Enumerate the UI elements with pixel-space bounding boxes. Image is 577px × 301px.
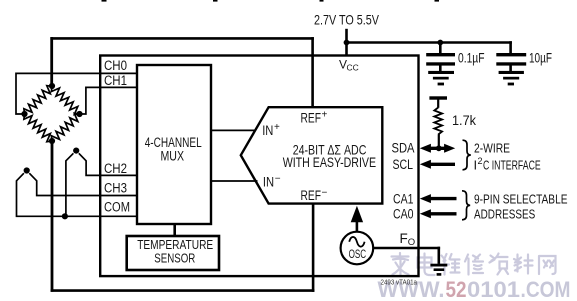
svg-text:2493 vTA01a: 2493 vTA01a	[381, 279, 418, 286]
oscillator OSC	[341, 232, 374, 265]
svg-text:REF: REF	[301, 109, 322, 125]
node bridge right	[76, 111, 82, 117]
wire REF+ vertical drop	[311, 37, 314, 106]
svg-text:COM: COM	[104, 199, 130, 214]
wire MUX to IN+	[212, 129, 255, 131]
svg-text:10µF: 10µF	[529, 51, 552, 66]
wire REF- bottom rail	[51, 289, 315, 292]
svg-text:+: +	[274, 122, 280, 133]
ground for C2	[499, 71, 524, 86]
wire bridge bottom	[51, 141, 54, 292]
brace 9-pin	[462, 191, 470, 220]
bridge resistor RB (top-right arm)	[51, 86, 79, 114]
wire FO to ground	[373, 247, 440, 250]
svg-text:2-WIRE: 2-WIRE	[474, 141, 510, 156]
resistor R1 1.7k pull-up	[429, 96, 447, 148]
svg-text:ADDRESSES: ADDRESSES	[474, 206, 536, 221]
ADC U1 24-BIT delta-sigma	[241, 107, 382, 203]
svg-text:C INTERFACE: C INTERFACE	[483, 157, 541, 172]
clipped title remnant marks	[102, 0, 440, 2]
svg-text:IN: IN	[262, 123, 273, 138]
brace 2-wire	[463, 140, 471, 170]
node sensor probe 2 tip	[73, 148, 79, 154]
chip LTC2493 outline	[100, 56, 418, 277]
bridge resistor RC (bottom-left arm)	[24, 114, 52, 142]
node bridge bottom	[49, 138, 55, 144]
node COM junction	[62, 213, 68, 219]
svg-text:2: 2	[478, 156, 483, 166]
svg-text:+: +	[322, 110, 328, 121]
svg-text:CH0: CH0	[104, 58, 127, 73]
svg-text:0101: 0101	[467, 277, 520, 301]
ground for C1	[428, 71, 454, 86]
wire REF- vertical rise	[312, 203, 315, 292]
svg-text:−: −	[275, 174, 281, 185]
wire decoupling rail	[345, 41, 512, 44]
wire bridge top	[50, 37, 53, 86]
svg-text:CC: CC	[347, 63, 359, 73]
svg-text:WITH EASY-DRIVE: WITH EASY-DRIVE	[283, 154, 376, 170]
wire SDA bidirectional arrow	[420, 144, 455, 153]
wire CA1 arrow	[420, 194, 457, 203]
svg-text:SDA: SDA	[392, 141, 415, 156]
svg-text:CA1: CA1	[393, 192, 414, 207]
wire MUX to temperature sensor	[173, 224, 176, 236]
svg-text:2.7V TO 5.5V: 2.7V TO 5.5V	[314, 12, 379, 28]
svg-text:OSC: OSC	[349, 247, 367, 261]
node SDA pull-up junction	[436, 145, 442, 151]
ground for FO	[430, 264, 447, 276]
svg-text:.COM: .COM	[521, 277, 571, 301]
watermark WWW.520101.COM	[378, 277, 571, 301]
svg-text:CH3: CH3	[104, 181, 127, 196]
svg-text:MUX: MUX	[161, 148, 185, 163]
wire CH1 to bridge right node	[80, 87, 137, 114]
wire CH3 to sensor probe 1	[29, 173, 137, 195]
svg-text:SENSOR: SENSOR	[154, 250, 195, 265]
svg-text:52: 52	[446, 277, 467, 301]
watermark chinese characters 家电维修资料网	[392, 253, 556, 276]
node sensor probe 1 tip	[24, 167, 30, 173]
svg-text:CH1: CH1	[104, 73, 127, 88]
svg-text:CA0: CA0	[393, 206, 414, 221]
svg-text:SCL: SCL	[393, 157, 414, 172]
wire CH0 to bridge left node	[16, 73, 137, 114]
wire CH2 to sensor probe 2	[79, 153, 137, 175]
wire supply drop to VCC pin	[345, 29, 348, 57]
svg-text:IN: IN	[263, 174, 274, 189]
capacitor C2 10uF	[496, 41, 526, 71]
temperature sensor block	[127, 236, 219, 270]
mux block 4-CHANNEL MUX	[137, 65, 211, 224]
node bridge top	[49, 83, 55, 89]
wire SCL arrow	[420, 160, 455, 169]
wire MUX to IN-	[212, 180, 258, 182]
svg-text:9-PIN SELECTABLE: 9-PIN SELECTABLE	[474, 192, 568, 207]
node cap junction	[437, 40, 443, 46]
svg-text:1.7k: 1.7k	[452, 113, 476, 128]
node bridge left	[21, 111, 27, 117]
wire COM	[17, 173, 137, 216]
node supply junction	[344, 40, 350, 46]
wire REF+ top rail	[50, 37, 314, 40]
wire OSC to ADC with up arrow	[351, 206, 363, 232]
wire sensor probe 2 left leg to COM	[66, 153, 74, 216]
bridge resistor RD (bottom-right arm)	[51, 113, 79, 141]
capacitor C1 0.1uF	[426, 43, 455, 72]
bridge resistor RA (top-left arm)	[24, 86, 52, 114]
wire CA0 arrow	[420, 209, 457, 218]
svg-text:CH2: CH2	[104, 161, 127, 176]
svg-text:0.1µF: 0.1µF	[458, 51, 485, 66]
svg-text:REF: REF	[301, 187, 322, 203]
svg-text:−: −	[322, 187, 328, 198]
